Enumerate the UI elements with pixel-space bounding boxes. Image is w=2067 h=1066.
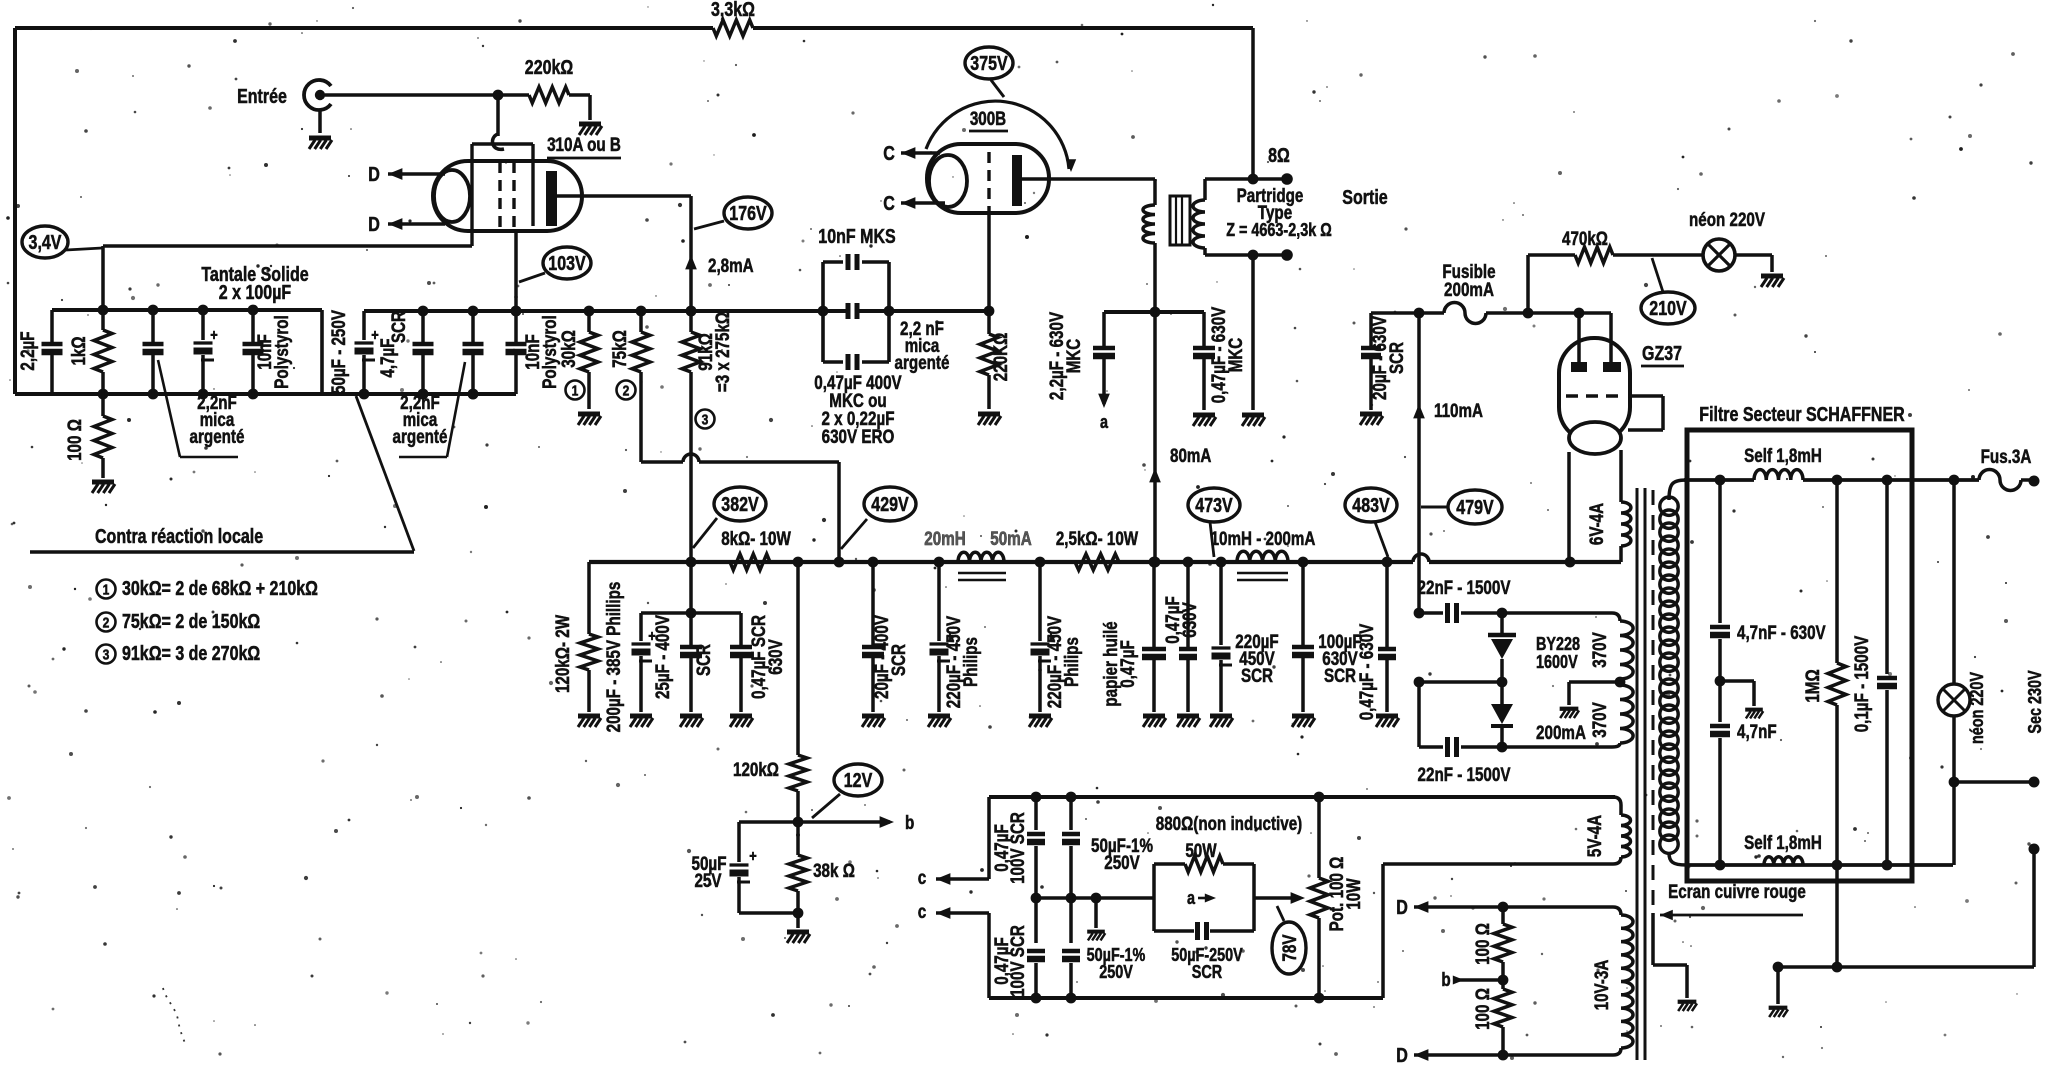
svg-text:SCR: SCR [1387, 342, 1408, 374]
svg-text:SCR: SCR [1192, 962, 1222, 982]
svg-text:2: 2 [103, 615, 110, 632]
svg-text:D: D [368, 164, 380, 186]
svg-text:1MΩ: 1MΩ [1803, 669, 1824, 702]
svg-text:Polystyrol: Polystyrol [540, 315, 561, 389]
svg-text:D: D [1396, 897, 1408, 919]
svg-text:argenté: argenté [190, 427, 245, 448]
svg-text:91kΩ= 3 de 270kΩ: 91kΩ= 3 de 270kΩ [122, 643, 260, 665]
svg-text:250V: 250V [1099, 962, 1133, 982]
svg-text:10W: 10W [1344, 878, 1365, 909]
svg-text:22nF - 1500V: 22nF - 1500V [1418, 765, 1511, 786]
svg-text:+: + [749, 848, 757, 865]
svg-text:630V: 630V [766, 639, 787, 675]
svg-text:20mH: 20mH [924, 529, 965, 550]
svg-text:0,1µF - 1500V: 0,1µF - 1500V [1852, 635, 1873, 732]
svg-text:1: 1 [572, 383, 579, 400]
svg-text:2,5kΩ- 10W: 2,5kΩ- 10W [1056, 529, 1138, 550]
svg-text:250V: 250V [1104, 853, 1140, 874]
svg-text:100 Ω: 100 Ω [1473, 923, 1494, 965]
svg-text:880Ω(non inductive): 880Ω(non inductive) [1156, 814, 1303, 835]
svg-text:200µF - 385V Phillips: 200µF - 385V Phillips [604, 582, 625, 733]
svg-text:Entrée: Entrée [237, 86, 287, 108]
svg-text:2,8mA: 2,8mA [708, 256, 754, 277]
svg-text:SCR: SCR [694, 644, 715, 676]
svg-text:MKC: MKC [1226, 337, 1247, 372]
svg-text:Sec 230V: Sec 230V [2025, 670, 2045, 733]
svg-text:100 Ω: 100 Ω [65, 419, 86, 461]
svg-text:200mA: 200mA [1536, 723, 1586, 744]
svg-text:Philips: Philips [961, 637, 982, 687]
svg-text:630V ERO: 630V ERO [822, 427, 895, 448]
svg-text:473V: 473V [1195, 495, 1233, 517]
svg-text:22nF - 1500V: 22nF - 1500V [1418, 578, 1511, 599]
svg-text:429V: 429V [871, 494, 909, 516]
svg-text:80mA: 80mA [1170, 446, 1212, 467]
svg-text:25µF - 400V: 25µF - 400V [653, 615, 674, 699]
svg-text:300B: 300B [970, 109, 1006, 130]
svg-text:MKC: MKC [1064, 338, 1085, 373]
svg-text:10mH - 200mA: 10mH - 200mA [1211, 529, 1316, 550]
svg-text:630V: 630V [1180, 602, 1201, 638]
svg-text:a: a [1100, 412, 1109, 432]
svg-text:220kΩ: 220kΩ [525, 57, 573, 79]
svg-text:25V: 25V [694, 871, 721, 892]
svg-text:Fus.3A: Fus.3A [1981, 447, 2032, 468]
svg-text:4,7µF: 4,7µF [378, 338, 399, 377]
svg-text:C: C [883, 193, 895, 215]
svg-text:375V: 375V [970, 53, 1008, 75]
svg-text:3,4V: 3,4V [29, 232, 62, 254]
svg-text:120kΩ: 120kΩ [733, 760, 779, 781]
svg-text:Polystyrol: Polystyrol [272, 315, 293, 389]
svg-text:103V: 103V [548, 253, 586, 275]
svg-text:210V: 210V [1649, 298, 1687, 320]
svg-text:Filtre Secteur SCHAFFNER: Filtre Secteur SCHAFFNER [1699, 404, 1905, 426]
svg-text:Ecran cuivre rouge: Ecran cuivre rouge [1668, 882, 1806, 903]
svg-text:Self 1,8mH: Self 1,8mH [1744, 833, 1822, 854]
svg-text:370V: 370V [1590, 702, 1611, 738]
svg-text:120kΩ- 2W: 120kΩ- 2W [553, 615, 574, 693]
svg-text:Z = 4663-2,3k Ω: Z = 4663-2,3k Ω [1226, 220, 1332, 240]
svg-text:470kΩ: 470kΩ [1562, 229, 1608, 250]
svg-text:SCR: SCR [389, 311, 410, 343]
svg-text:0,47µF - 630V: 0,47µF - 630V [1357, 623, 1378, 720]
svg-text:3: 3 [103, 647, 110, 664]
svg-text:176V: 176V [729, 203, 767, 225]
svg-text:2,2µF: 2,2µF [18, 331, 39, 370]
svg-text:1600V: 1600V [1536, 652, 1578, 672]
svg-text:1kΩ: 1kΩ [69, 336, 90, 365]
svg-text:6V-4A: 6V-4A [1587, 503, 1608, 545]
svg-text:100 Ω: 100 Ω [1473, 988, 1494, 1030]
svg-text:50W: 50W [1185, 841, 1216, 862]
svg-text:c: c [918, 902, 927, 923]
svg-text:100V SCR: 100V SCR [1008, 925, 1029, 997]
svg-text:BY228: BY228 [1536, 634, 1580, 654]
svg-text:4,7nF: 4,7nF [1737, 722, 1777, 743]
svg-text:a: a [1187, 888, 1196, 908]
svg-text:479V: 479V [1456, 497, 1494, 519]
svg-text:483V: 483V [1352, 495, 1390, 517]
svg-text:8kΩ- 10W: 8kΩ- 10W [721, 529, 791, 550]
svg-text:10V-3A: 10V-3A [1592, 959, 1613, 1010]
svg-text:110mA: 110mA [1434, 401, 1483, 422]
svg-text:c: c [918, 868, 927, 889]
svg-text:SCR: SCR [1324, 666, 1356, 687]
svg-text:75kΩ= 2 de 150kΩ: 75kΩ= 2 de 150kΩ [122, 611, 260, 633]
svg-text:b: b [1441, 970, 1450, 991]
svg-text:75kΩ: 75kΩ [610, 330, 631, 368]
svg-text:SCR: SCR [889, 644, 910, 676]
svg-text:+: + [210, 327, 218, 344]
svg-text:100V SCR: 100V SCR [1008, 812, 1029, 884]
svg-text:néon 220V: néon 220V [1967, 672, 1987, 744]
svg-text:2 x 100µF: 2 x 100µF [219, 282, 291, 304]
svg-text:1: 1 [103, 582, 110, 599]
svg-text:Self 1,8mH: Self 1,8mH [1744, 446, 1822, 467]
svg-text:370V: 370V [1590, 632, 1611, 668]
svg-text:50µF - 250V: 50µF - 250V [329, 310, 350, 394]
svg-text:0,47µF: 0,47µF [1118, 640, 1139, 688]
svg-text:30kΩ= 2 de 68kΩ + 210kΩ: 30kΩ= 2 de 68kΩ + 210kΩ [122, 578, 318, 600]
svg-text:10nF MKS: 10nF MKS [818, 226, 895, 248]
svg-text:8Ω: 8Ω [1268, 145, 1290, 167]
svg-text:néon 220V: néon 220V [1689, 210, 1765, 231]
svg-text:D: D [368, 214, 380, 236]
svg-text:200mA: 200mA [1444, 280, 1494, 301]
svg-text:30kΩ: 30kΩ [559, 330, 580, 368]
svg-text:310A ou B: 310A ou B [547, 135, 621, 156]
svg-text:382V: 382V [721, 494, 759, 516]
svg-text:78V: 78V [1280, 934, 1301, 961]
svg-text:38k Ω: 38k Ω [813, 861, 855, 882]
svg-text:220KΩ: 220KΩ [991, 333, 1012, 382]
svg-text:12V: 12V [844, 770, 873, 792]
svg-text:3,3kΩ: 3,3kΩ [711, 0, 755, 21]
svg-text:b: b [905, 813, 914, 834]
svg-text:5V-4A: 5V-4A [1585, 815, 1606, 857]
svg-text:argenté: argenté [895, 353, 950, 374]
svg-text:Philips: Philips [1062, 637, 1083, 687]
svg-text:2: 2 [623, 383, 630, 400]
svg-text:C: C [883, 143, 895, 165]
svg-text:50mA: 50mA [990, 529, 1032, 550]
svg-text:argenté: argenté [393, 427, 448, 448]
svg-text:3: 3 [702, 412, 709, 429]
svg-text:D: D [1396, 1045, 1408, 1066]
svg-text:SCR: SCR [1241, 666, 1273, 687]
svg-text:GZ37: GZ37 [1642, 343, 1682, 365]
svg-text:4,7nF - 630V: 4,7nF - 630V [1737, 623, 1826, 644]
svg-text:Sortie: Sortie [1342, 187, 1387, 209]
svg-text:Contra réaction locale: Contra réaction locale [95, 526, 263, 548]
svg-text:=3 x 275kΩ: =3 x 275kΩ [713, 312, 734, 392]
